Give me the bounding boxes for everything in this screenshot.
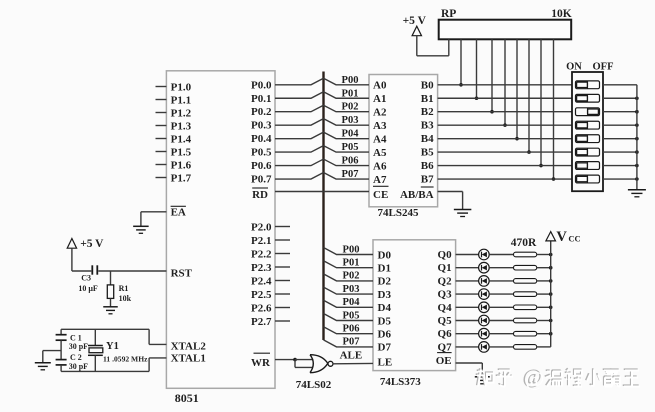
wire XTAL1 net (149, 358, 166, 372)
svg-text:P06: P06 (342, 156, 359, 167)
wire P1.7 stub (156, 177, 167, 179)
svg-text:P0.5: P0.5 (251, 147, 272, 159)
svg-text:P04: P04 (343, 297, 361, 308)
svg-text:P2.1: P2.1 (251, 235, 271, 247)
svg-text:P2.3: P2.3 (251, 262, 272, 274)
latch U3 74LS373 (373, 240, 456, 371)
resistor 470R #6 (514, 318, 537, 323)
svg-text:B5: B5 (421, 147, 434, 159)
resistor 470R #3 (514, 279, 537, 284)
svg-text:P1.5: P1.5 (171, 146, 192, 158)
wire P1.1 stub (156, 99, 167, 101)
ground (AB/BA) (454, 210, 472, 217)
wire Q6 to LED (456, 333, 479, 335)
wire RP pin 5 to B3 (504, 39, 506, 125)
wire junction to gate inputs (295, 360, 313, 368)
node Vcc rail junction 1 (549, 266, 553, 270)
node rail junction B1 (635, 96, 639, 100)
svg-text:B2: B2 (421, 106, 434, 118)
wire RP pin 4 to B2 (491, 39, 493, 111)
wire RP pin 8 to B6 (540, 39, 542, 165)
svg-text:P02: P02 (343, 271, 360, 282)
svg-text:B6: B6 (421, 160, 434, 172)
svg-text:74LS245: 74LS245 (378, 207, 419, 219)
wire resistor to Vcc rail (537, 293, 551, 295)
svg-text:B4: B4 (421, 133, 434, 145)
wire resistor to Vcc rail (537, 320, 551, 322)
microcontroller U1 8051 (166, 71, 275, 389)
node rail junction B3 (635, 123, 639, 127)
switch S1 DIP-8 (572, 72, 603, 191)
wire RP pin 3 to B1 (476, 39, 478, 98)
svg-text:A3: A3 (373, 120, 387, 132)
capacitor C3 (92, 265, 97, 274)
svg-text:P03: P03 (342, 115, 359, 126)
node RP/B0 junction (459, 83, 463, 87)
svg-text:V: V (556, 229, 567, 245)
node rail junction B7 (635, 177, 639, 181)
node RP/B6 junction (539, 164, 543, 168)
svg-text:P06: P06 (343, 324, 360, 335)
svg-text:D0: D0 (378, 249, 392, 261)
wire C3 to RST (98, 270, 166, 272)
bus P0 vertical (322, 72, 324, 341)
resistor 470R #5 (514, 305, 537, 310)
node WR junction (293, 358, 297, 362)
wire EA to ground (141, 212, 167, 227)
wire LED to resistor (489, 254, 513, 256)
LED D2 (479, 262, 490, 273)
wire Q7 to LED (456, 346, 479, 348)
wire RP pin 9 to B7 (553, 39, 555, 179)
resistor 470R #2 (514, 265, 537, 270)
svg-text:A1: A1 (373, 93, 386, 105)
svg-text:P0.7: P0.7 (251, 174, 272, 186)
wire B5 to switch (438, 151, 572, 153)
svg-text:Q0: Q0 (438, 249, 453, 261)
svg-text:XTAL2: XTAL2 (171, 341, 207, 353)
svg-text:10K: 10K (551, 8, 572, 20)
wire bus to 74LS245 A7 (324, 173, 370, 180)
wire LED to resistor (489, 306, 513, 308)
LED D3 (479, 276, 490, 287)
wire XTAL2 net (61, 329, 166, 344)
wire Q0 to LED (456, 254, 479, 256)
wire resistor to Vcc rail (537, 333, 551, 335)
svg-text:P0.2: P0.2 (251, 106, 272, 118)
svg-text:XTAL1: XTAL1 (171, 353, 206, 365)
svg-text:Q7: Q7 (438, 341, 453, 353)
svg-text:P1.3: P1.3 (171, 120, 192, 132)
node Vcc rail junction 0 (549, 253, 553, 257)
wire B1 to switch (438, 97, 572, 99)
svg-text:B0: B0 (421, 79, 434, 91)
LED D4 (479, 289, 490, 300)
svg-text:74LS02: 74LS02 (296, 379, 332, 391)
svg-text:P2.6: P2.6 (251, 302, 272, 314)
wire P0.5 from 8051 to bus (275, 146, 324, 153)
wire Q4 to LED (456, 306, 479, 308)
wire bus to 74LS245 A3 (324, 119, 370, 126)
buffer U2 74LS245 (369, 75, 438, 207)
wire switch output 4 to rail (603, 138, 637, 140)
svg-text:D7: D7 (378, 342, 392, 354)
wire B7 to switch (438, 178, 572, 180)
wire P0.0 from 8051 to bus (275, 78, 324, 85)
svg-text:P02: P02 (342, 102, 359, 113)
wire switch output 5 to rail (603, 151, 637, 153)
svg-text:P01: P01 (343, 258, 360, 269)
svg-text:D1: D1 (378, 263, 391, 275)
wire P1.5 stub (156, 151, 167, 153)
LED D7 (479, 328, 490, 339)
wire switch ground rail (636, 85, 638, 190)
node Vcc rail junction 6 (549, 332, 553, 336)
resistor 470R #8 (514, 345, 537, 350)
wire OE to ground (456, 363, 483, 377)
gate U4 74LS02 NOR (310, 355, 333, 373)
wire +5V to C3 (72, 270, 91, 272)
wire bus to 74LS245 A2 (324, 105, 370, 112)
svg-text:CC: CC (568, 234, 580, 244)
wire P2.4 stub (275, 280, 290, 282)
svg-text:A4: A4 (373, 133, 387, 145)
crystal Y1 (88, 329, 103, 371)
svg-text:A5: A5 (373, 147, 387, 159)
resistor pack RP (439, 20, 572, 40)
wire LED to resistor (489, 346, 513, 348)
node RP/B2 junction (490, 110, 494, 114)
wire P2.6 stub (275, 307, 290, 309)
svg-text:P1.7: P1.7 (171, 172, 192, 184)
power Vcc (546, 229, 581, 245)
svg-text:B1: B1 (421, 93, 434, 105)
svg-text:P1.6: P1.6 (171, 159, 192, 171)
node RP/B5 junction (527, 150, 531, 154)
node Vcc rail junction 3 (549, 292, 553, 296)
wire P2.5 stub (275, 293, 290, 295)
svg-text:P0.6: P0.6 (251, 160, 272, 172)
wire Q2 to LED (456, 280, 479, 282)
wire bus to 74LS373 D6 (324, 327, 374, 334)
wire RD to CE (275, 191, 369, 193)
wire B4 to switch (438, 138, 572, 140)
svg-text:10 μF: 10 μF (78, 284, 98, 293)
svg-text:470R: 470R (511, 237, 537, 249)
LED D1 (479, 249, 490, 260)
svg-text:P2.0: P2.0 (251, 221, 272, 233)
wire P2.2 stub (275, 253, 290, 255)
wire AB/BA to ground (438, 192, 463, 210)
node Vcc rail junction 5 (549, 319, 553, 323)
svg-text:30 pF: 30 pF (69, 342, 88, 351)
wire switch output 7 to rail (603, 178, 637, 180)
svg-text:P0.0: P0.0 (251, 79, 272, 91)
LED D5 (479, 302, 490, 313)
wire switch output 3 to rail (603, 124, 637, 126)
wire P1.6 stub (156, 164, 167, 166)
node RP/B1 junction (475, 96, 479, 100)
ground (switch rail) (628, 190, 646, 197)
wire Q3 to LED (456, 293, 479, 295)
svg-text:P00: P00 (343, 244, 360, 255)
svg-text:P1.1: P1.1 (171, 94, 191, 106)
wire Vcc rail (550, 241, 552, 347)
svg-text:@: @ (525, 367, 544, 391)
svg-text:P03: P03 (343, 284, 360, 295)
wire gate output (ALE) to LE (333, 362, 373, 364)
wire bus to 74LS373 D0 (324, 248, 374, 255)
node RST/R1 junction (110, 271, 112, 285)
wire bus to 74LS373 D4 (324, 300, 374, 307)
svg-text:P0.4: P0.4 (251, 133, 272, 145)
wire resistor to Vcc rail (537, 280, 551, 282)
svg-text:B7: B7 (421, 174, 434, 186)
wire B0 to switch (438, 84, 572, 86)
node rail junction B5 (635, 150, 639, 154)
svg-text:P1.0: P1.0 (171, 81, 192, 93)
resistor 470R #7 (514, 331, 537, 336)
wire bus to 74LS373 D5 (324, 314, 374, 321)
wire bus to 74LS373 D7 (324, 340, 374, 347)
wire LED to resistor (489, 267, 513, 269)
svg-text:D6: D6 (378, 329, 392, 341)
svg-text:P07: P07 (342, 169, 359, 180)
node RP/B7 junction (552, 177, 556, 181)
svg-text:11 .0592 MHz: 11 .0592 MHz (103, 355, 148, 364)
wire switch output 0 to rail (603, 84, 637, 86)
wire P2.0 stub (275, 226, 290, 228)
svg-text:P2.7: P2.7 (251, 316, 272, 328)
wire LED to resistor (489, 280, 513, 282)
wire bus to 74LS245 A5 (324, 146, 370, 153)
svg-text:P0.3: P0.3 (251, 120, 272, 132)
svg-text:P05: P05 (343, 310, 360, 321)
wire bottom rail of crystal loop (61, 370, 149, 372)
wire R1 to ground (110, 298, 112, 306)
wire +5V to RP common pin (417, 39, 449, 56)
node Vcc rail junction 2 (549, 279, 553, 283)
svg-text:Q5: Q5 (438, 315, 453, 327)
svg-text:+5 V: +5 V (403, 15, 427, 27)
svg-text:+5 V: +5 V (80, 238, 104, 250)
svg-text:D4: D4 (378, 302, 392, 314)
ground (OE) (475, 377, 490, 384)
svg-text:Q4: Q4 (438, 302, 453, 314)
wire Q1 to LED (456, 267, 479, 269)
wire bus to 74LS245 A1 (324, 92, 370, 99)
svg-text:B3: B3 (421, 120, 434, 132)
wire P0.3 from 8051 to bus (275, 119, 324, 126)
power +5V (RP common) (403, 15, 427, 56)
capacitor C1 (56, 329, 67, 359)
wire LED to resistor (489, 293, 513, 295)
wire C1/C2 junction to ground (43, 351, 61, 363)
svg-text:R1: R1 (119, 284, 129, 293)
resistor 470R #4 (514, 292, 537, 297)
svg-text:Q6: Q6 (438, 328, 453, 340)
svg-text:OE: OE (436, 355, 452, 367)
wire switch output 6 to rail (603, 165, 637, 167)
resistor 470R #1 (514, 252, 537, 257)
svg-text:CE: CE (373, 189, 388, 201)
svg-text:P2.2: P2.2 (251, 248, 272, 260)
wire bus to 74LS245 A6 (324, 159, 370, 166)
svg-text:P00: P00 (342, 75, 359, 86)
svg-text:Q3: Q3 (438, 289, 453, 301)
wire switch output 1 to rail (603, 97, 637, 99)
wire resistor to Vcc rail (537, 267, 551, 269)
watermark zhihu (476, 364, 639, 388)
wire P1.4 stub (156, 138, 167, 140)
wire bus to 74LS245 A4 (324, 132, 370, 139)
svg-text:OFF: OFF (593, 62, 614, 73)
wire bus to 74LS245 A0 (324, 78, 370, 85)
node RP/B3 junction (503, 123, 507, 127)
wire B2 to switch (438, 111, 572, 113)
wire P2.3 stub (275, 266, 290, 268)
svg-text:A6: A6 (373, 160, 387, 172)
svg-text:AB/BA: AB/BA (400, 189, 434, 201)
svg-text:D5: D5 (378, 315, 392, 327)
ground (EA) (133, 226, 149, 233)
node rail junction B4 (635, 137, 639, 141)
wire P0.6 from 8051 to bus (275, 159, 324, 166)
wire P1.3 stub (156, 125, 167, 127)
svg-text:ALE: ALE (340, 350, 363, 362)
wire P0.2 from 8051 to bus (275, 105, 324, 112)
ground (crystal caps) (35, 363, 51, 370)
wire B3 to switch (438, 124, 572, 126)
svg-text:P1.2: P1.2 (171, 107, 192, 119)
wire bus to 74LS373 D1 (324, 261, 374, 268)
svg-text:RP: RP (441, 8, 456, 20)
svg-text:P0.1: P0.1 (251, 93, 271, 105)
svg-text:RST: RST (171, 268, 193, 280)
power +5V (reset) (67, 238, 104, 271)
svg-text:Y1: Y1 (106, 341, 119, 352)
svg-text:Q2: Q2 (438, 275, 453, 287)
svg-text:P2.4: P2.4 (251, 275, 272, 287)
svg-text:P07: P07 (343, 337, 360, 348)
svg-text:Q1: Q1 (438, 262, 452, 274)
LED D6 (479, 315, 490, 326)
svg-text:A7: A7 (373, 174, 387, 186)
wire resistor to Vcc rail (537, 306, 551, 308)
wire resistor to Vcc rail (537, 254, 551, 256)
wire bus to 74LS373 D3 (324, 287, 374, 294)
wire LED to resistor (489, 320, 513, 322)
wire resistor to Vcc rail (537, 346, 551, 348)
svg-text:EA: EA (171, 207, 186, 219)
svg-text:RD: RD (252, 189, 268, 201)
wire P0.1 from 8051 to bus (275, 92, 324, 99)
wire bus to 74LS373 D2 (324, 274, 374, 281)
svg-text:10k: 10k (119, 294, 132, 303)
node RP/B4 junction (515, 137, 519, 141)
svg-text:ON: ON (566, 62, 582, 73)
svg-text:74LS373: 74LS373 (380, 376, 421, 388)
svg-text:A2: A2 (373, 107, 387, 119)
resistor R1 (107, 285, 113, 299)
svg-text:P04: P04 (342, 129, 360, 140)
wire RP pin 7 to B5 (528, 39, 530, 152)
wire WR to gate (275, 359, 295, 361)
svg-text:D3: D3 (378, 289, 392, 301)
capacitor C2 (56, 360, 67, 372)
wire B6 to switch (438, 165, 572, 167)
wire P2.1 stub (275, 239, 290, 241)
wire RP pin 2 to B0 (460, 39, 462, 85)
wire LED to resistor (489, 333, 513, 335)
wire P2.7 stub (275, 320, 290, 322)
svg-text:8051: 8051 (175, 391, 199, 405)
wire P0.4 from 8051 to bus (275, 132, 324, 139)
wire P1.0 stub (156, 86, 167, 88)
LED D8 (479, 342, 490, 353)
wire switch output 2 to rail (603, 111, 637, 113)
node rail junction B6 (635, 164, 639, 168)
wire P1.2 stub (156, 112, 167, 114)
svg-text:C3: C3 (81, 274, 91, 283)
svg-text:P05: P05 (342, 142, 359, 153)
svg-text:A0: A0 (373, 80, 387, 92)
wire RP pin 6 to B4 (516, 39, 518, 138)
svg-text:D2: D2 (378, 276, 392, 288)
svg-text:P01: P01 (342, 88, 359, 99)
svg-text:WR: WR (251, 357, 271, 369)
svg-text:P1.4: P1.4 (171, 133, 192, 145)
svg-text:30 pF: 30 pF (69, 362, 88, 371)
svg-text:P2.5: P2.5 (251, 289, 272, 301)
ground (R1) (103, 307, 118, 314)
wire Q5 to LED (456, 320, 479, 322)
svg-text:LE: LE (378, 357, 393, 369)
node rail junction B2 (635, 110, 639, 114)
wire P0.7 from 8051 to bus (275, 173, 324, 180)
node Vcc rail junction 4 (549, 306, 553, 310)
